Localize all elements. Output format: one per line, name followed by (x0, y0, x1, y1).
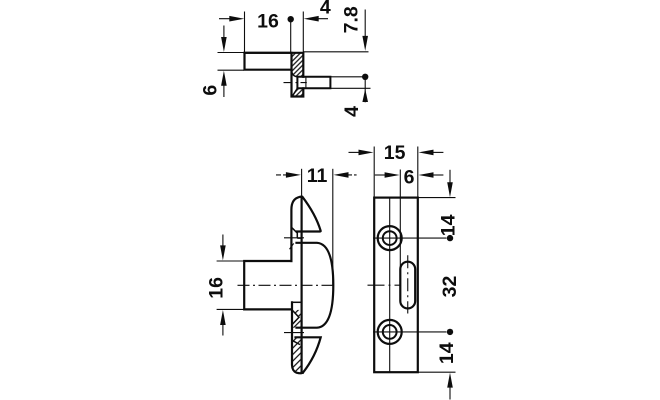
shank centerline (238, 284, 334, 286)
ext 15 right (417, 147, 419, 198)
lens top edge (292, 301, 303, 303)
dim dot pin top (362, 74, 368, 80)
dim arrow 16 lower (222, 321, 224, 336)
lens inner chamfer (292, 340, 300, 344)
svg-text:32: 32 (439, 276, 461, 298)
dim arrow 11 left (276, 174, 287, 176)
dim dot hole bottom (447, 329, 453, 335)
holes centerline vertical (389, 198, 391, 373)
extension line 4 right (302, 12, 304, 53)
dim ext 16 top (217, 260, 244, 262)
lens chevron notch (292, 310, 299, 325)
hatch fill lower plate block (292, 88, 303, 96)
dim line 7.8 (364, 10, 366, 41)
fillet curve (292, 70, 298, 77)
dim arrow 15 left (349, 151, 361, 153)
extension line top face (218, 52, 245, 54)
head face line (301, 197, 303, 373)
svg-text:6: 6 (199, 85, 221, 96)
slot extension line (399, 170, 401, 267)
wing section lens outline (292, 302, 303, 373)
dim ext 16 bottom (217, 308, 244, 310)
dim arrow 16 upper (222, 235, 224, 251)
dim arrow 4 top (311, 18, 328, 20)
svg-text:4: 4 (341, 106, 363, 117)
dim arrow 6 left (375, 174, 388, 176)
svg-text:16: 16 (206, 277, 228, 299)
hole bottom inner (383, 325, 397, 339)
hole top inner (383, 231, 397, 245)
plate centerline horizontal (368, 284, 401, 286)
slot outline (400, 262, 415, 309)
extension line pin bottom (330, 87, 370, 89)
svg-text:14: 14 (438, 214, 460, 236)
dim arrow 6 upper (223, 26, 225, 43)
dim arrow 16 left (219, 18, 236, 20)
dim dot hole top (447, 235, 453, 241)
pin outline (297, 77, 330, 89)
dim arrow 14 bottom (449, 386, 451, 400)
hole bottom centerline (373, 331, 447, 333)
svg-text:14: 14 (436, 342, 458, 364)
white chevron notch in lens (292, 310, 299, 325)
hub chamfer tick (290, 243, 294, 249)
dim ext 11 right (332, 169, 334, 285)
ext 15 left (373, 147, 375, 198)
hatch fill upper plate block (292, 53, 304, 77)
svg-text:11: 11 (307, 165, 328, 187)
extension line 16 left (244, 12, 246, 53)
wing width line bottom (284, 332, 304, 334)
dim arrow 6 lower (223, 83, 225, 97)
disc outline (297, 243, 334, 328)
wing chamfer diagonal (291, 227, 297, 233)
slot centerline vertical (407, 255, 409, 313)
extension line pin top (330, 76, 367, 78)
wing step (297, 232, 301, 239)
bottom wing fin (296, 337, 321, 372)
flange bar outline (245, 53, 292, 70)
hole top outer (378, 226, 402, 250)
plate strip outline (245, 53, 304, 97)
hole top centerline (373, 237, 447, 239)
hatch fill wing section lens upper (292, 302, 303, 327)
extension line flange bottom (218, 69, 245, 71)
dim dot 16/4 (288, 16, 294, 22)
ext plate bottom right (418, 371, 456, 373)
countersink diagonal (292, 88, 297, 96)
centerline pin (284, 82, 307, 84)
shank outline (244, 261, 291, 309)
svg-text:7.8: 7.8 (341, 6, 363, 33)
svg-text:4: 4 (320, 0, 331, 19)
dim ext 11 left (301, 169, 303, 197)
ext plate top right (418, 197, 456, 199)
plate right face line across pin (305, 77, 307, 89)
hatch fill wing section lens lower (292, 337, 303, 373)
dim arrow 15 right (432, 151, 444, 153)
dim arrow 11 right (347, 174, 357, 176)
hole bottom outer (378, 320, 402, 344)
svg-text:6: 6 (404, 167, 415, 189)
dim arrow 6 right (432, 174, 444, 176)
top wing fin (291, 197, 320, 261)
svg-text:15: 15 (384, 142, 406, 164)
extension line from dot (290, 19, 292, 53)
dim line 4 pin (364, 77, 366, 103)
wing width line top (284, 237, 304, 239)
plate outline (374, 198, 418, 373)
svg-text:16: 16 (257, 10, 279, 32)
dim arrow 14 top (449, 170, 451, 184)
